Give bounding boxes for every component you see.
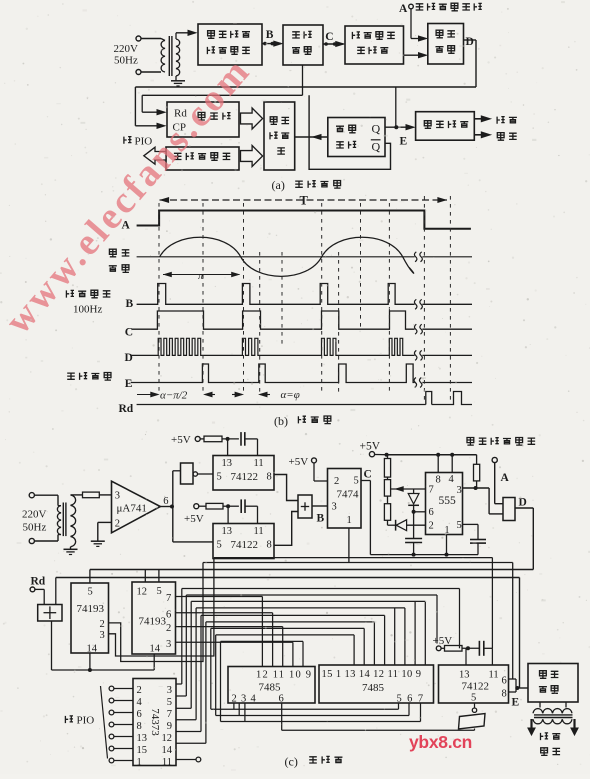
svg-text:+5V: +5V bbox=[360, 441, 381, 453]
svg-text:5: 5 bbox=[217, 540, 222, 551]
svg-text:8: 8 bbox=[137, 721, 142, 732]
svg-text:5: 5 bbox=[457, 520, 462, 531]
svg-text:+5V: +5V bbox=[171, 434, 191, 446]
svg-text:3: 3 bbox=[100, 630, 105, 641]
svg-text:15 1 13 14 12 11 10 9: 15 1 13 14 12 11 10 9 bbox=[322, 669, 422, 680]
svg-text:Rd: Rd bbox=[119, 403, 134, 415]
svg-text:7474: 7474 bbox=[337, 489, 360, 501]
svg-text:3: 3 bbox=[115, 491, 120, 502]
svg-text:15: 15 bbox=[137, 745, 148, 756]
svg-text:3: 3 bbox=[332, 502, 337, 513]
svg-text:50Hz: 50Hz bbox=[114, 55, 138, 67]
svg-text:11: 11 bbox=[254, 526, 264, 537]
svg-text:7: 7 bbox=[429, 485, 434, 496]
svg-text:2: 2 bbox=[429, 521, 434, 532]
svg-text:50Hz: 50Hz bbox=[23, 522, 47, 534]
svg-text:E: E bbox=[125, 378, 133, 390]
svg-text:220V: 220V bbox=[22, 509, 47, 521]
svg-text:8: 8 bbox=[502, 689, 507, 700]
svg-text:2: 2 bbox=[137, 685, 142, 696]
svg-text:E: E bbox=[512, 697, 520, 709]
svg-text:8: 8 bbox=[267, 472, 272, 483]
svg-text:α−π/2: α−π/2 bbox=[160, 389, 188, 401]
svg-text:7485: 7485 bbox=[259, 682, 282, 694]
svg-text:3: 3 bbox=[167, 685, 172, 696]
svg-text:+5V: +5V bbox=[289, 456, 309, 468]
svg-text:12 11 10 9: 12 11 10 9 bbox=[256, 670, 312, 681]
svg-text:5: 5 bbox=[157, 586, 162, 597]
svg-text:14: 14 bbox=[162, 745, 173, 756]
svg-text:α=φ: α=φ bbox=[281, 389, 300, 401]
svg-text:Q: Q bbox=[372, 122, 381, 136]
svg-text:C: C bbox=[325, 31, 333, 43]
svg-text:100Hz: 100Hz bbox=[73, 304, 102, 316]
svg-text:13: 13 bbox=[459, 670, 470, 681]
svg-text:13: 13 bbox=[137, 733, 148, 744]
svg-text:8: 8 bbox=[436, 475, 441, 486]
svg-text:Q: Q bbox=[372, 140, 381, 154]
svg-text:555: 555 bbox=[439, 495, 457, 507]
svg-text:14: 14 bbox=[87, 644, 98, 655]
svg-text:C: C bbox=[125, 327, 133, 339]
svg-text:5: 5 bbox=[471, 693, 476, 704]
svg-text:E: E bbox=[400, 136, 408, 148]
svg-text:3: 3 bbox=[166, 639, 171, 650]
svg-text:6: 6 bbox=[163, 496, 168, 507]
svg-text:4: 4 bbox=[449, 474, 455, 485]
svg-text:D: D bbox=[466, 36, 474, 48]
svg-text:D: D bbox=[125, 352, 133, 364]
svg-text:+5V: +5V bbox=[184, 513, 204, 525]
svg-text:12: 12 bbox=[162, 733, 173, 744]
svg-text:12: 12 bbox=[137, 587, 148, 598]
svg-text:3: 3 bbox=[457, 485, 462, 496]
svg-text:μA741: μA741 bbox=[117, 503, 147, 515]
svg-text:5: 5 bbox=[88, 587, 93, 598]
svg-text:13: 13 bbox=[222, 458, 233, 469]
svg-text:7: 7 bbox=[167, 709, 172, 720]
svg-text:(c): (c) bbox=[285, 755, 298, 769]
svg-text:1: 1 bbox=[347, 515, 352, 526]
svg-text:13: 13 bbox=[222, 526, 233, 537]
svg-text:A: A bbox=[399, 3, 408, 15]
svg-text:6: 6 bbox=[137, 709, 142, 720]
svg-text:14: 14 bbox=[150, 644, 161, 655]
svg-text:220V: 220V bbox=[114, 43, 139, 55]
svg-text:74122: 74122 bbox=[231, 539, 259, 551]
svg-text:8: 8 bbox=[267, 540, 272, 551]
svg-text:A: A bbox=[501, 472, 510, 484]
svg-text:5: 5 bbox=[167, 697, 172, 708]
svg-text:74122: 74122 bbox=[462, 681, 490, 693]
svg-text:ybx8.cn: ybx8.cn bbox=[409, 732, 472, 752]
svg-text:2: 2 bbox=[166, 623, 171, 634]
svg-text:6: 6 bbox=[279, 694, 284, 705]
svg-text:5: 5 bbox=[217, 472, 222, 483]
svg-text:74193: 74193 bbox=[77, 603, 105, 615]
svg-text:5: 5 bbox=[354, 476, 359, 487]
svg-text:74193: 74193 bbox=[139, 616, 167, 628]
svg-text:2 3 4: 2 3 4 bbox=[232, 694, 257, 705]
svg-text:11: 11 bbox=[254, 458, 264, 469]
svg-text:1: 1 bbox=[137, 757, 142, 768]
svg-text:(b): (b) bbox=[274, 414, 288, 428]
svg-text:7485: 7485 bbox=[362, 682, 385, 694]
svg-text:6: 6 bbox=[166, 610, 171, 621]
svg-text:9: 9 bbox=[167, 721, 172, 732]
svg-text:74122: 74122 bbox=[231, 471, 259, 483]
svg-text:11: 11 bbox=[162, 757, 172, 768]
svg-text:B: B bbox=[317, 513, 325, 525]
svg-text:11: 11 bbox=[489, 670, 499, 681]
svg-text:6: 6 bbox=[429, 507, 434, 518]
svg-text:7: 7 bbox=[166, 593, 171, 604]
svg-text:2: 2 bbox=[115, 519, 120, 530]
svg-text:PIO: PIO bbox=[77, 715, 95, 727]
svg-text:C: C bbox=[364, 469, 372, 481]
svg-text:Rd: Rd bbox=[31, 576, 46, 588]
svg-text:4: 4 bbox=[137, 697, 143, 708]
svg-text:2: 2 bbox=[100, 619, 105, 630]
svg-text:5 6 7: 5 6 7 bbox=[397, 694, 425, 705]
svg-text:6: 6 bbox=[502, 676, 507, 687]
svg-text:74373: 74373 bbox=[149, 708, 161, 736]
svg-text:2: 2 bbox=[334, 476, 339, 487]
svg-text:B: B bbox=[126, 298, 134, 310]
svg-text:T: T bbox=[300, 194, 309, 208]
svg-text:(a): (a) bbox=[272, 178, 285, 192]
